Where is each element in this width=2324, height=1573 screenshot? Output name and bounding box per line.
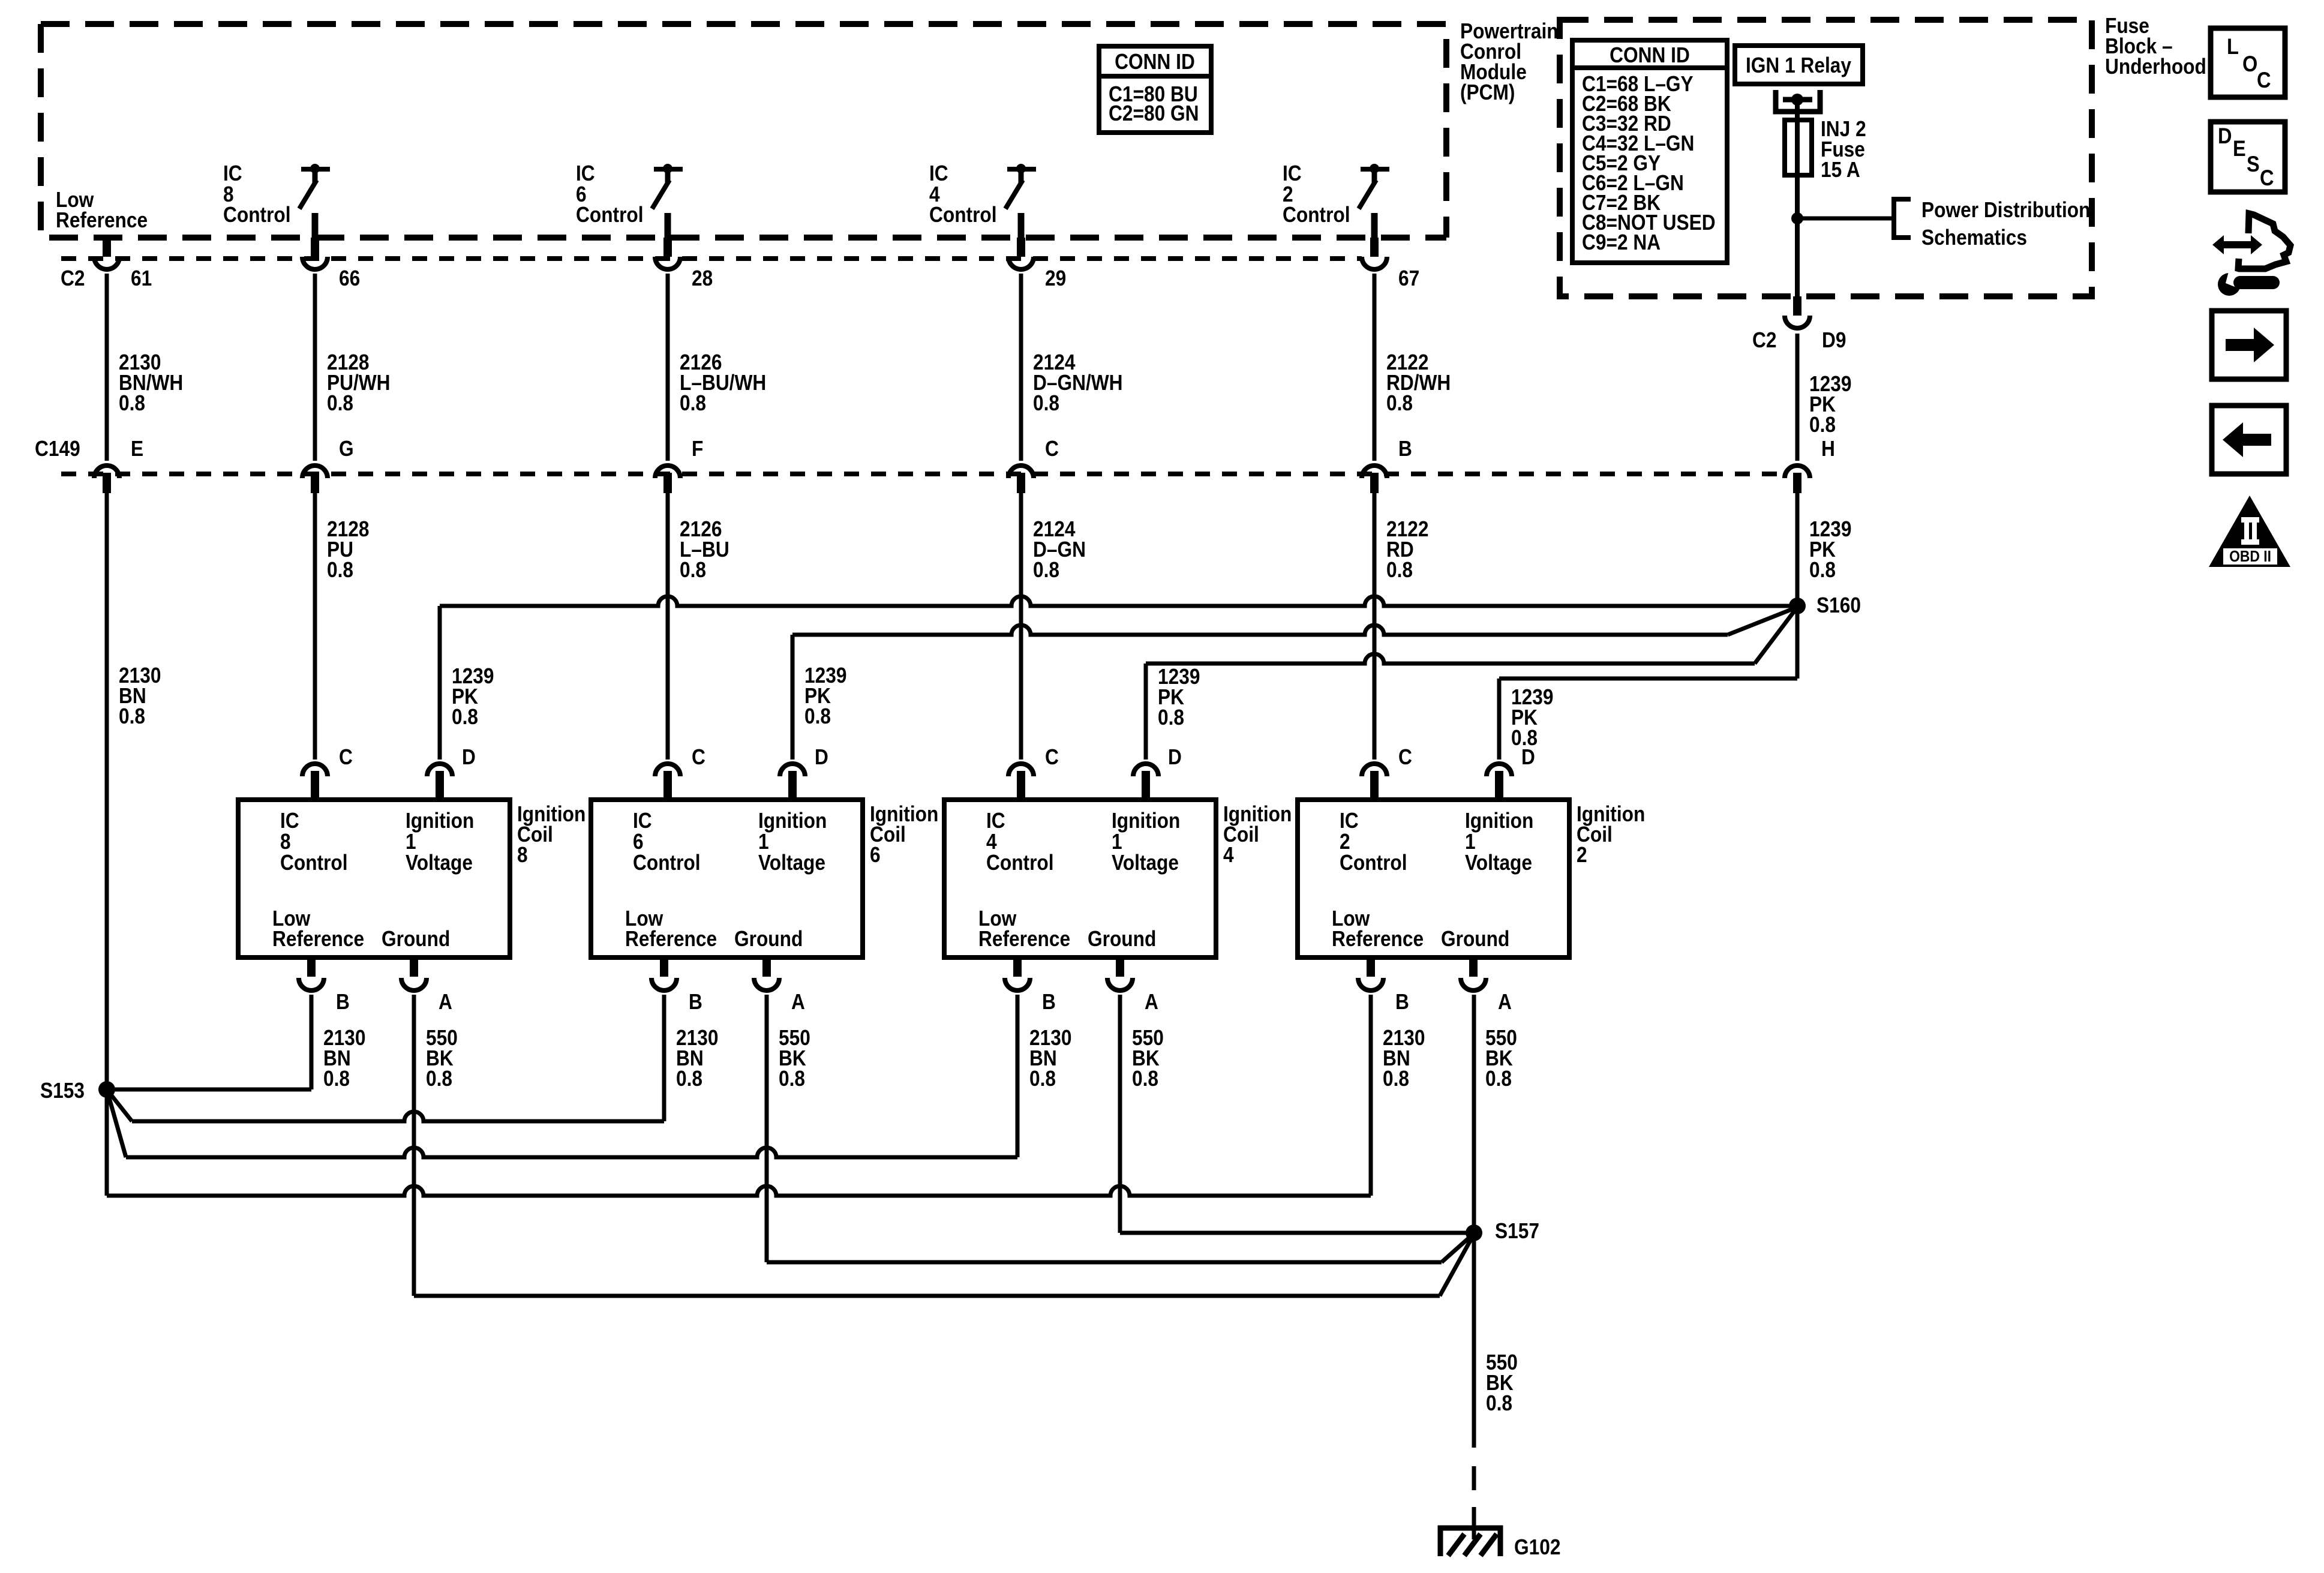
svg-text:C: C [339, 745, 353, 769]
connector pin C2-67 [1362, 238, 1387, 269]
svg-text:28: 28 [692, 266, 713, 290]
wire coil 8 pin A to S157 [412, 995, 416, 1296]
wire 1239 PK from D9 to C149 H [1795, 334, 1800, 461]
svg-text:D: D [1521, 745, 1535, 769]
svg-text:2: 2 [1577, 843, 1587, 867]
wire coil 4 pin B to S153 [107, 1089, 126, 1157]
svg-text:C2: C2 [61, 266, 85, 290]
power distribution bracket [1894, 199, 1911, 238]
connector C149 dotted line [61, 472, 1783, 476]
svg-text:29: 29 [1045, 266, 1066, 290]
svg-text:6: 6 [870, 843, 881, 867]
icon back arrow box [2212, 406, 2286, 474]
wire from C2 pin down to C149 (x=2291) [1373, 274, 1377, 461]
ignition coil 6 box [591, 800, 863, 957]
coil 8 pin D [427, 764, 452, 800]
wire 1239 PK from S160 to coil 2 pin D [1499, 677, 1797, 681]
wire from C149 down to ignition coil pin C (x=525) [313, 493, 317, 760]
coil 6 pin B [651, 957, 677, 990]
junction dot to power distribution [1791, 212, 1803, 224]
svg-text:G: G [339, 437, 354, 461]
svg-text:0.8: 0.8 [1029, 1067, 1056, 1091]
svg-text:0.8: 0.8 [1485, 1067, 1512, 1091]
svg-text:0.8: 0.8 [426, 1067, 452, 1091]
svg-text:15 A: 15 A [1821, 158, 1860, 182]
svg-text:66: 66 [339, 266, 360, 290]
relay contact symbol [1776, 90, 1820, 112]
connector pin C149-C [1008, 466, 1034, 493]
coil 2 pin A [1461, 957, 1486, 990]
svg-text:Voltage: Voltage [1465, 851, 1532, 875]
svg-text:B: B [1395, 990, 1409, 1014]
coil 6 pin C [655, 764, 680, 800]
icon LOC box [2211, 28, 2285, 97]
svg-text:D: D [1168, 745, 1182, 769]
svg-text:D9: D9 [1822, 328, 1846, 352]
svg-text:Control: Control [1340, 851, 1407, 875]
svg-text:0.8: 0.8 [327, 558, 353, 582]
switch contact IC 8 Control (PCM driver) [299, 164, 330, 240]
svg-text:Control: Control [1283, 203, 1350, 227]
fuse INJ 2 15A [1785, 120, 1812, 175]
IGN 1 Relay box [1735, 46, 1863, 84]
svg-text:S: S [2247, 152, 2260, 176]
svg-text:0.8: 0.8 [323, 1067, 350, 1091]
svg-text:S153: S153 [40, 1079, 85, 1103]
svg-text:IGN 1 Relay: IGN 1 Relay [1746, 53, 1851, 77]
ignition coil 4 box [944, 800, 1216, 957]
svg-text:OBD II: OBD II [2229, 548, 2271, 566]
Fuse Block Underhood dashed outline box [1560, 20, 2092, 296]
svg-text:Voltage: Voltage [406, 851, 473, 875]
coil 6 pin A [754, 957, 779, 990]
svg-text:C: C [2257, 68, 2271, 92]
switch contact IC 2 Control (PCM driver) [1359, 164, 1389, 240]
svg-text:C: C [1398, 745, 1412, 769]
connector pin C149-B [1362, 466, 1387, 493]
dashed continuation of ground wire [1472, 1466, 1476, 1490]
coil 2 pin B [1358, 957, 1383, 990]
svg-text:D: D [462, 745, 476, 769]
svg-text:A: A [439, 990, 452, 1014]
svg-text:C9=2 NA: C9=2 NA [1582, 230, 1661, 254]
svg-text:0.8: 0.8 [779, 1067, 805, 1091]
svg-text:G102: G102 [1514, 1535, 1560, 1559]
icon OBD II triangle [2209, 496, 2290, 567]
connector pin C2-61 [94, 238, 119, 269]
connector pin C2-D9 (fuse block) [1785, 296, 1810, 328]
svg-text:C: C [1045, 745, 1059, 769]
wire relay to fuse to junction [1795, 102, 1800, 296]
svg-text:B: B [1042, 990, 1056, 1014]
svg-text:67: 67 [1398, 266, 1419, 290]
connector pin C2-28 [655, 238, 680, 269]
wire 1239 PK from S160 to coil 4 pin D [1146, 654, 1755, 664]
svg-text:Control: Control [576, 203, 644, 227]
svg-text:Power Distribution: Power Distribution [1921, 198, 2090, 222]
Fuse block CONN ID table [1572, 40, 1727, 263]
svg-text:Control: Control [986, 851, 1054, 875]
wire from C149 down to ignition coil pin C (x=1702) [1019, 493, 1023, 760]
PCM CONN ID table [1099, 46, 1211, 133]
connector pin C2-29 [1008, 238, 1034, 269]
svg-text:D: D [815, 745, 828, 769]
coil 4 pin D [1133, 764, 1158, 800]
ground symbol G102 [1440, 1528, 1500, 1556]
icon DESC box [2211, 122, 2285, 192]
wire 1239 PK from S160 to coil 8 pin D [440, 596, 1797, 606]
svg-text:Control: Control [929, 203, 997, 227]
coil 8 pin C [302, 764, 328, 800]
svg-text:O: O [2242, 52, 2257, 76]
svg-text:0.8: 0.8 [676, 1067, 702, 1091]
svg-text:0.8: 0.8 [327, 391, 353, 415]
connector pin C2-66 [302, 238, 328, 269]
svg-text:0.8: 0.8 [119, 391, 145, 415]
svg-text:Ground: Ground [1441, 927, 1509, 951]
svg-text:E: E [2233, 136, 2246, 161]
svg-text:4: 4 [1223, 843, 1234, 867]
coil 4 pin B [1005, 957, 1030, 990]
coil 4 pin A [1107, 957, 1133, 990]
svg-text:Reference: Reference [272, 927, 364, 951]
svg-text:8: 8 [517, 843, 528, 867]
switch contact IC 6 Control (PCM driver) [652, 164, 683, 240]
svg-text:Voltage: Voltage [758, 851, 825, 875]
svg-text:0.8: 0.8 [680, 391, 706, 415]
wire 2130 BN low reference vertical run [105, 493, 109, 1196]
ignition coil 8 box [238, 800, 510, 957]
switch contact IC 4 Control (PCM driver) [1005, 164, 1036, 240]
svg-text:Ground: Ground [382, 927, 450, 951]
svg-text:(PCM): (PCM) [1460, 80, 1515, 104]
svg-text:Control: Control [280, 851, 348, 875]
svg-text:H: H [1821, 437, 1835, 461]
coil 2 pin D [1487, 764, 1512, 800]
svg-text:Ground: Ground [734, 927, 803, 951]
splice S160 [1789, 598, 1806, 614]
svg-text:Reference: Reference [56, 208, 148, 232]
PCM module dashed outline box [41, 24, 1446, 238]
svg-text:Voltage: Voltage [1112, 851, 1179, 875]
icon service wrench with arrows [2212, 214, 2290, 296]
connector C2 dotted line [61, 256, 1362, 261]
wire from C149 down to ignition coil pin C (x=2291) [1373, 493, 1377, 760]
svg-text:Control: Control [223, 203, 291, 227]
svg-text:E: E [131, 437, 143, 461]
svg-text:CONN ID: CONN ID [1610, 43, 1690, 67]
svg-text:Reference: Reference [978, 927, 1070, 951]
svg-text:B: B [336, 990, 350, 1014]
svg-text:CONN ID: CONN ID [1115, 50, 1195, 74]
svg-text:0.8: 0.8 [1809, 558, 1836, 582]
svg-text:0.8: 0.8 [1386, 391, 1413, 415]
wire coil 6 pin B to S153 [107, 1089, 132, 1121]
svg-text:0.8: 0.8 [1809, 413, 1836, 437]
connector pin C149-H [1785, 466, 1810, 493]
svg-text:Underhood: Underhood [2105, 55, 2206, 79]
svg-text:0.8: 0.8 [1132, 1067, 1158, 1091]
splice S157 [1466, 1224, 1482, 1241]
wire 550 BK to ground G102 [1472, 1233, 1476, 1448]
svg-text:C2=80 GN: C2=80 GN [1109, 101, 1199, 125]
svg-text:F: F [692, 437, 703, 461]
svg-text:S160: S160 [1816, 593, 1861, 617]
wire coil 2 pin A to S157 [1472, 995, 1476, 1233]
svg-text:0.8: 0.8 [1386, 558, 1413, 582]
svg-text:Reference: Reference [1332, 927, 1424, 951]
wire coil 8 pin B to S153 [310, 995, 314, 1089]
svg-text:A: A [1145, 990, 1158, 1014]
svg-text:C: C [2260, 166, 2274, 190]
svg-text:A: A [791, 990, 805, 1014]
svg-text:0.8: 0.8 [452, 705, 478, 729]
svg-text:C149: C149 [35, 437, 80, 461]
wire from C2 pin down to C149 (x=178) [105, 274, 109, 461]
svg-text:Ground: Ground [1088, 927, 1156, 951]
wire 1239 PK from S160 to coil 6 pin D [792, 625, 1728, 635]
svg-text:Schematics: Schematics [1921, 226, 2027, 250]
connector pin C149-G [302, 466, 328, 493]
wire coil 2 pin B from wire 2130 corner [107, 1186, 1371, 1196]
wire from C2 pin down to C149 (x=1113) [666, 274, 670, 461]
svg-text:0.8: 0.8 [1033, 391, 1059, 415]
svg-text:C2: C2 [1752, 328, 1776, 352]
svg-text:61: 61 [131, 266, 152, 290]
wire coil 6 pin A to S157 [765, 995, 769, 1262]
svg-text:S157: S157 [1495, 1219, 1539, 1243]
wire from C149 down to ignition coil pin C (x=1113) [666, 493, 670, 760]
wire from C2 pin down to C149 (x=1702) [1019, 274, 1023, 461]
svg-text:L: L [2227, 34, 2239, 59]
svg-text:0.8: 0.8 [1158, 706, 1184, 730]
coil 8 pin B [299, 957, 324, 990]
svg-text:0.8: 0.8 [1383, 1067, 1409, 1091]
icon forward arrow box [2212, 311, 2286, 379]
connector pin C149-E [94, 466, 119, 493]
svg-text:C: C [692, 745, 705, 769]
coil 8 pin A [401, 957, 427, 990]
svg-text:0.8: 0.8 [680, 558, 706, 582]
svg-text:Control: Control [633, 851, 701, 875]
svg-text:B: B [1398, 437, 1412, 461]
svg-text:B: B [689, 990, 702, 1014]
splice S153 [98, 1081, 115, 1098]
svg-text:0.8: 0.8 [1033, 558, 1059, 582]
wire 1239 PK from C149 H to S160 [1795, 493, 1800, 606]
wire from C2 pin down to C149 (x=525) [313, 274, 317, 461]
ignition coil 2 box [1298, 800, 1569, 957]
coil 6 pin D [780, 764, 805, 800]
connector pin C149-F [655, 466, 680, 493]
svg-text:A: A [1498, 990, 1512, 1014]
svg-text:Reference: Reference [625, 927, 717, 951]
svg-text:0.8: 0.8 [804, 704, 831, 728]
svg-text:0.8: 0.8 [1486, 1391, 1512, 1415]
svg-text:D: D [2218, 124, 2232, 148]
wire coil 4 pin A to S157 [1118, 995, 1122, 1233]
svg-text:0.8: 0.8 [119, 704, 145, 728]
coil 2 pin C [1362, 764, 1387, 800]
coil 4 pin C [1008, 764, 1034, 800]
svg-text:C: C [1045, 437, 1059, 461]
